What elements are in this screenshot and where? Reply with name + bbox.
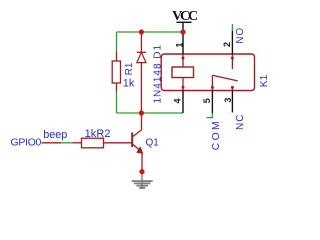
- wire VCC top net: [117, 31, 184, 33]
- svg-text:1k: 1k: [85, 128, 97, 140]
- pin 5 wire stub: [211, 113, 213, 117]
- power symbol VCC: [172, 9, 198, 32]
- wire bottom net: [117, 112, 184, 114]
- svg-text:R1: R1: [124, 62, 135, 75]
- ground terminal: [132, 169, 153, 189]
- svg-text:R2: R2: [96, 128, 110, 140]
- pin 3: [231, 91, 233, 113]
- svg-text:5: 5: [202, 98, 212, 103]
- relay contact NC: [231, 86, 234, 91]
- relay contact COM armature: [211, 75, 238, 90]
- diode D1: [137, 32, 146, 113]
- relay contact NO: [231, 54, 234, 69]
- pin 1: [182, 32, 184, 54]
- wire left branch lower: [116, 92, 118, 114]
- svg-text:NO: NO: [235, 27, 246, 44]
- junction node VCC/top: [180, 29, 185, 34]
- junction node D1 bottom / collector: [139, 110, 144, 115]
- svg-text:1k: 1k: [123, 77, 135, 89]
- junction node emitter/ground: [139, 169, 144, 174]
- wire left branch upper: [116, 32, 118, 52]
- resistor R1: [112, 52, 120, 92]
- pin 4: [182, 91, 184, 114]
- svg-text:4: 4: [172, 98, 182, 103]
- relay K1 body: [161, 54, 254, 91]
- transistor Q1: [132, 113, 142, 172]
- svg-text:NC: NC: [235, 114, 246, 130]
- svg-text:beep: beep: [43, 129, 67, 141]
- svg-text:K1: K1: [259, 74, 270, 87]
- svg-text:3: 3: [223, 98, 233, 103]
- svg-text:2: 2: [222, 42, 232, 47]
- relay coil: [172, 54, 194, 91]
- pin GPIO0: [42, 142, 62, 144]
- junction node D1 top: [139, 29, 144, 34]
- pin 2: [231, 31, 233, 54]
- svg-text:COM: COM: [211, 119, 222, 150]
- pin 2 wire stub: [231, 24, 233, 31]
- wire beep: [61, 142, 72, 144]
- svg-text:GPIO0: GPIO0: [11, 137, 42, 149]
- pin 5: [211, 91, 213, 114]
- resistor R2: [72, 138, 132, 148]
- svg-text:Q1: Q1: [146, 138, 160, 149]
- svg-text:1: 1: [174, 43, 184, 48]
